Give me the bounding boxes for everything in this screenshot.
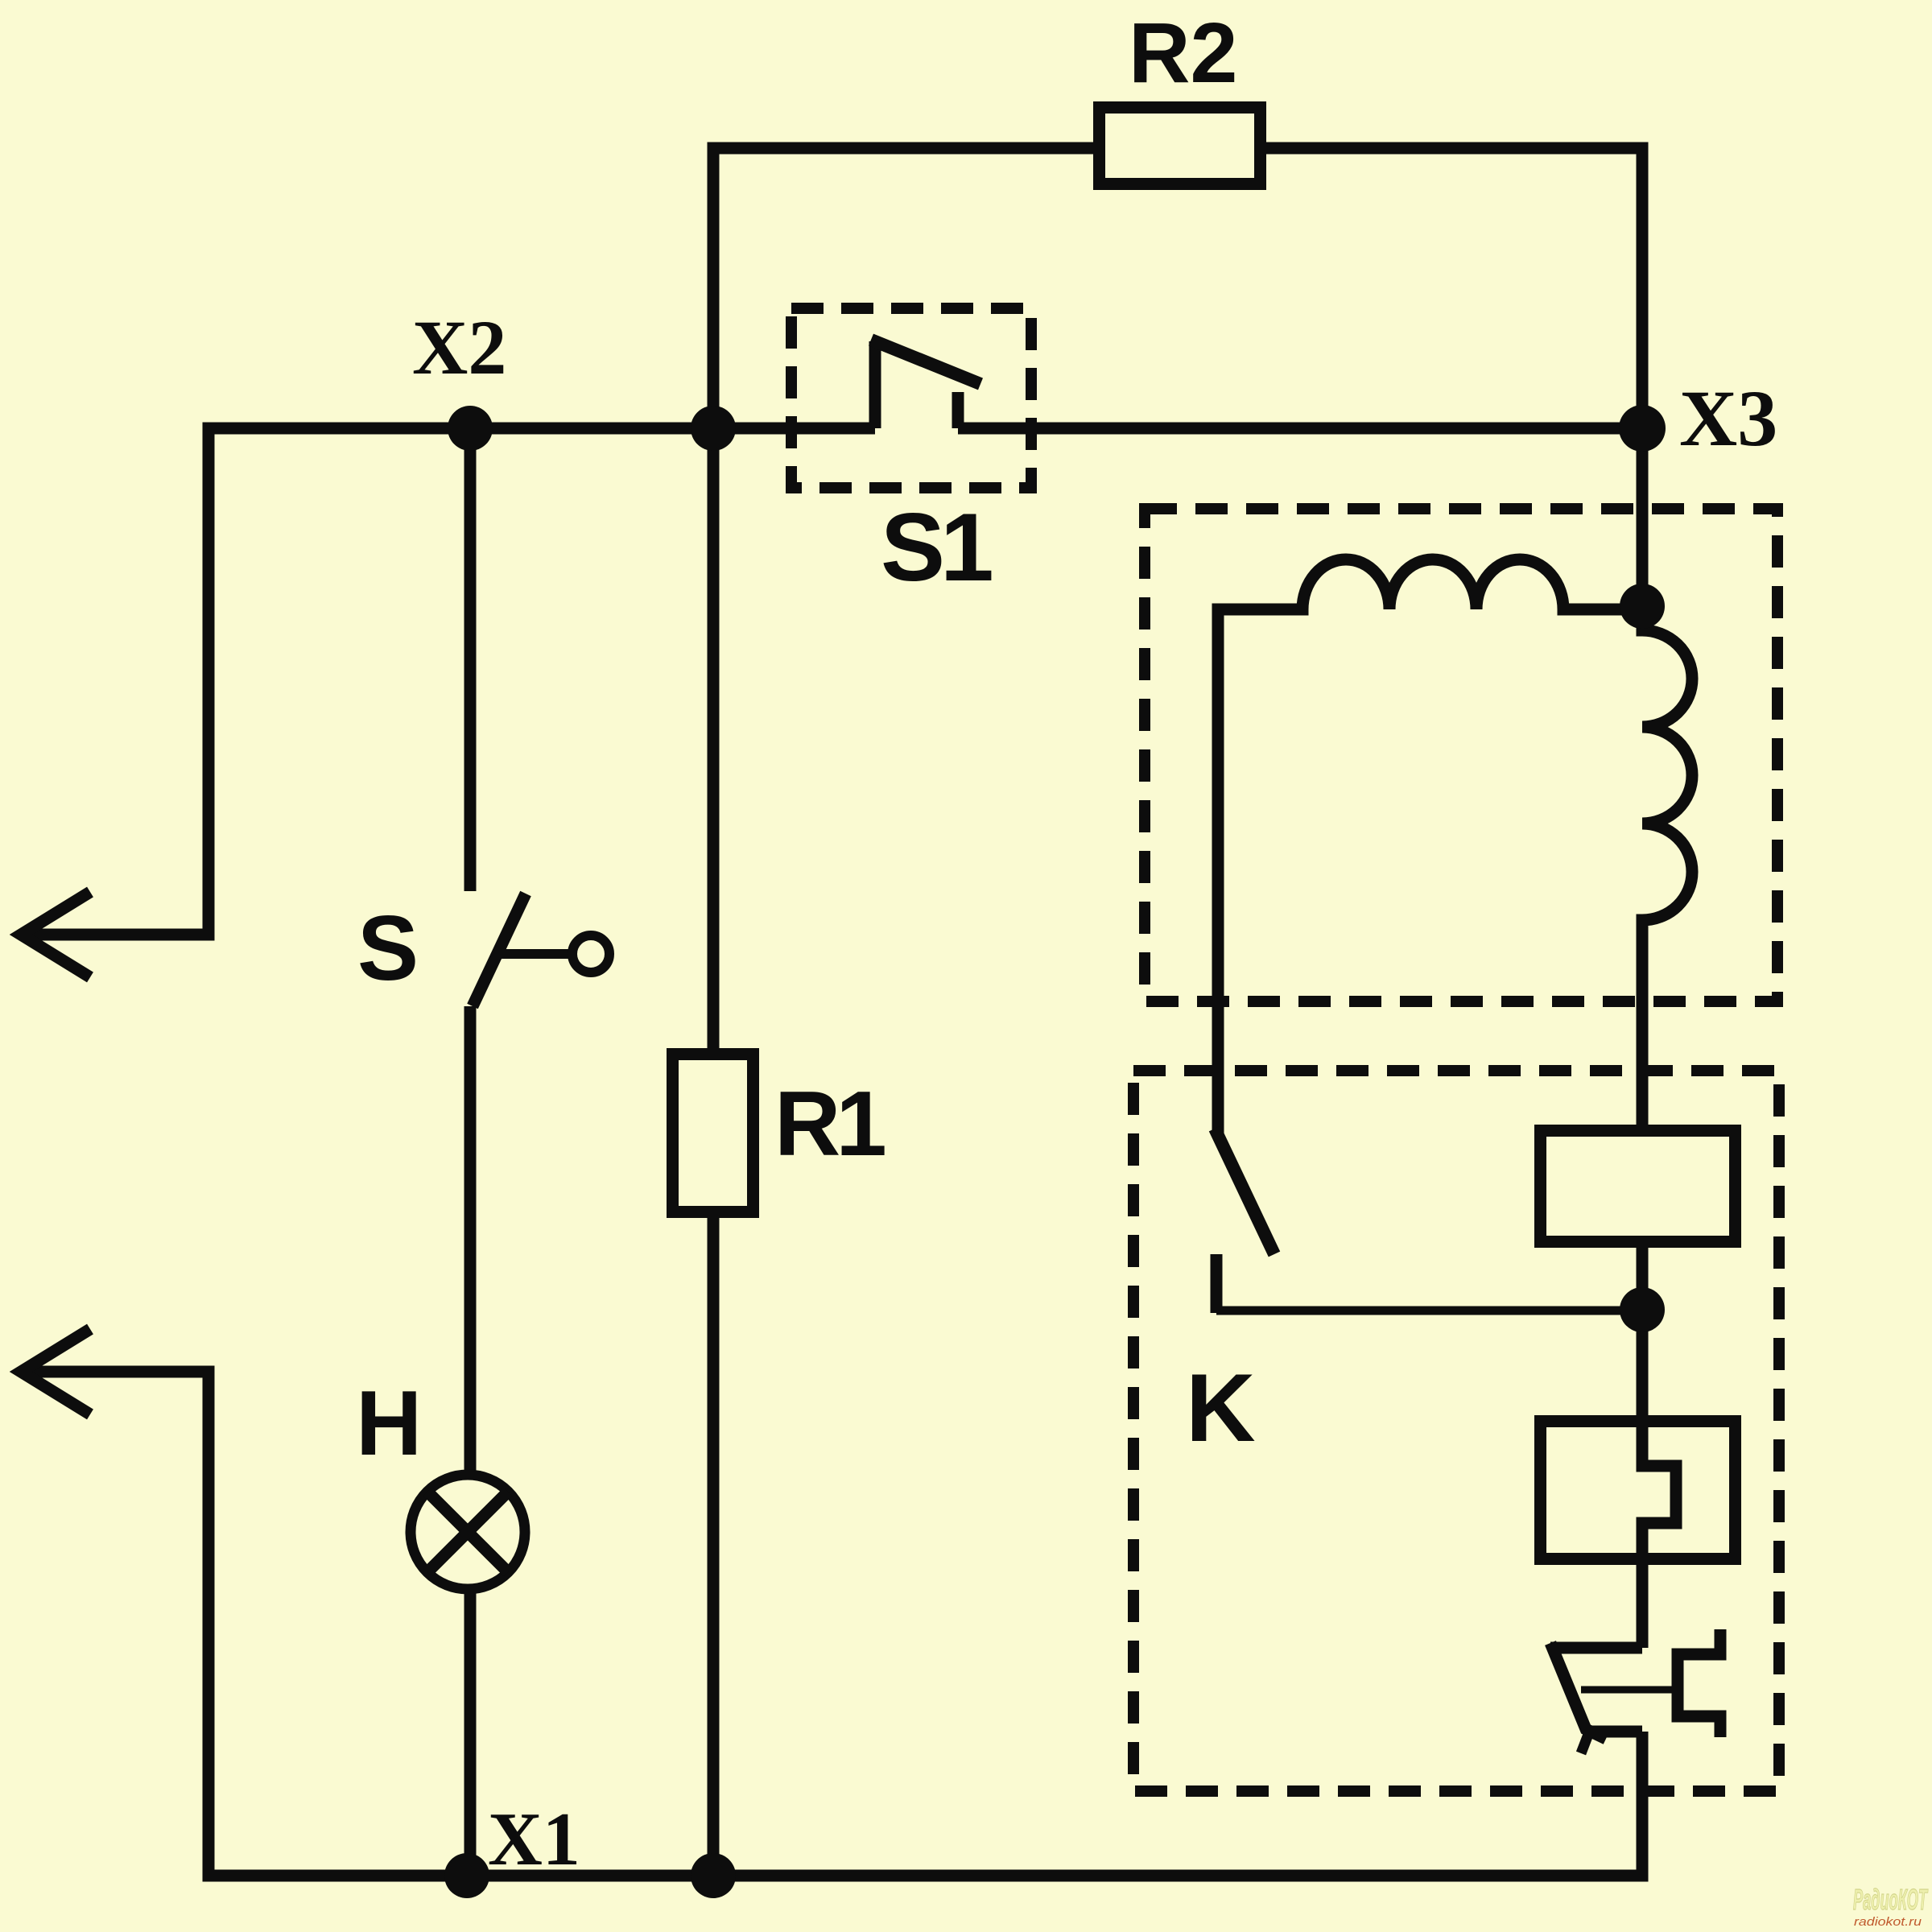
S1 left riser xyxy=(869,341,881,428)
svg-text:H: H xyxy=(356,1373,422,1475)
arrow lower barbs xyxy=(21,1329,90,1414)
wire: left rail lower xyxy=(23,1372,1642,1876)
resistor R2 xyxy=(1100,108,1261,184)
wire: S to lamp H xyxy=(464,1006,477,1471)
S1 right riser xyxy=(952,392,964,428)
wire: top loop with R2 xyxy=(713,148,1642,428)
wire: R1 branch xyxy=(708,428,720,1048)
K contact seat xyxy=(1211,1254,1223,1313)
bottom junction dot xyxy=(691,1853,736,1898)
dashed box: relay K xyxy=(1133,1071,1779,1791)
switch S contact link xyxy=(501,949,568,959)
wire: lamp to X1 xyxy=(464,1589,477,1876)
dashed box: motor M xyxy=(1145,509,1777,1001)
K thin link to node xyxy=(1216,1307,1642,1315)
wire: X2 down to switch S xyxy=(464,428,477,891)
relay coil box xyxy=(1541,1131,1736,1242)
node X3 dot xyxy=(1619,405,1666,452)
svg-text:S: S xyxy=(357,898,419,1000)
svg-text:R1: R1 xyxy=(774,1073,885,1175)
switch S contact circle xyxy=(572,935,609,972)
svg-text:S1: S1 xyxy=(881,493,992,601)
wire: main horizontal left of S1 xyxy=(23,428,875,935)
svg-text:X2: X2 xyxy=(412,304,506,390)
arrow upper barbs xyxy=(21,892,90,977)
lamp H circle xyxy=(411,1475,525,1589)
svg-text:R2: R2 xyxy=(1129,6,1238,101)
switch S blade xyxy=(473,894,526,1006)
thermal blade diagonal xyxy=(1550,1643,1606,1739)
K contact blade xyxy=(1215,1129,1274,1254)
thermal bracket xyxy=(1678,1629,1720,1737)
node X2 dot xyxy=(448,406,493,451)
svg-text:radiokot.ru: radiokot.ru xyxy=(1854,1915,1922,1929)
svg-text:РадиоКОТ: РадиоКОТ xyxy=(1853,1883,1929,1916)
thermal blade hook xyxy=(1581,1732,1589,1753)
S1 blade xyxy=(871,340,980,384)
thermal contact horizontal bottom xyxy=(1583,1726,1642,1738)
wire: main horizontal right of S1 xyxy=(958,423,1642,435)
node X1 dot xyxy=(444,1853,489,1898)
junction dot xyxy=(691,406,736,451)
relay lower box xyxy=(1541,1422,1736,1559)
svg-text:X3: X3 xyxy=(1679,374,1777,463)
thermal contact horizontal top xyxy=(1550,1642,1642,1654)
relay node dot xyxy=(1620,1287,1665,1332)
thermal thin link xyxy=(1581,1686,1676,1694)
svg-text:X1: X1 xyxy=(488,1798,580,1881)
relay heater jog xyxy=(1642,1415,1676,1648)
motor winding node dot xyxy=(1620,584,1665,629)
resistor R1 xyxy=(673,1055,753,1212)
wire: X3 down + start winding arcs xyxy=(1642,428,1692,1415)
dashed box: switch S1 xyxy=(791,308,1031,488)
main winding: vertical + horizontal + 3 arcs xyxy=(1218,559,1642,1133)
svg-text:K: K xyxy=(1186,1354,1256,1462)
lamp H cross xyxy=(427,1492,508,1572)
